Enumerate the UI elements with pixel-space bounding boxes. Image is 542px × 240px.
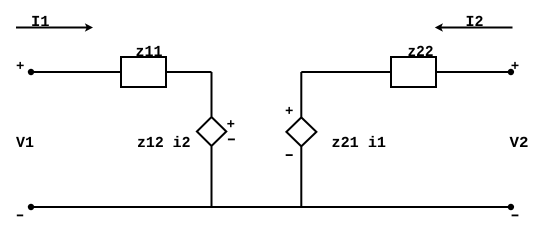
svg-text:I2: I2 [466,13,484,31]
svg-text:V2: V2 [510,134,529,152]
svg-text:I1: I1 [31,13,50,31]
svg-text:z22: z22 [408,43,434,61]
svg-text:V1: V1 [16,134,34,152]
svg-text:z21 i1: z21 i1 [332,134,387,152]
svg-text:z11: z11 [136,43,163,61]
svg-text:z12 i2: z12 i2 [137,134,191,152]
